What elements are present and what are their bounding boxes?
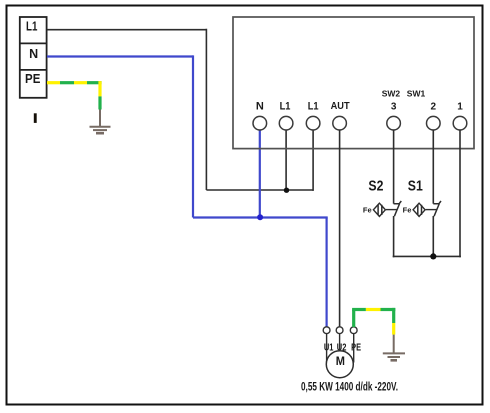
wire N vertical (blue) (192, 55, 194, 217)
wire to terminal L1-b (312, 130, 314, 191)
svg-text:N: N (256, 101, 264, 113)
wire terminal 3 to S2 (393, 130, 395, 204)
wire PE motor right vertical (green/yellow) (392, 308, 395, 335)
wire bottom horizontal (393, 255, 461, 257)
wire S2 to bottom (393, 216, 395, 257)
wire AUT to motor U2 (339, 130, 341, 327)
svg-text:SW1: SW1 (407, 89, 426, 99)
svg-text:PE: PE (25, 72, 40, 86)
svg-text:M: M (336, 354, 345, 368)
motor terminal U1 (323, 327, 330, 334)
ground E2 (383, 335, 405, 361)
wire PE motor vertical (green) (352, 310, 355, 328)
svg-text:0,55 KW 1400 d/dk -220V.: 0,55 KW 1400 d/dk -220V. (301, 382, 398, 394)
wire N to motor U1 (blue) (326, 218, 328, 327)
wire N horizontal from block (blue) (47, 55, 193, 57)
terminal L1-a (279, 101, 293, 130)
junction J1 (284, 188, 289, 193)
motor terminal U2 (336, 327, 343, 334)
terminal L1-b (306, 101, 320, 130)
svg-text:AUT: AUT (331, 101, 350, 112)
motor lead U1 (326, 333, 328, 362)
terminal N (253, 101, 267, 130)
switch S1 (403, 178, 441, 217)
motor lead PE (353, 333, 355, 362)
motor terminal PE (350, 327, 357, 334)
junction J3 (430, 253, 436, 259)
svg-text:Fe: Fe (363, 206, 372, 215)
svg-text:SW2: SW2 (382, 89, 401, 99)
wire L1 vertical (205, 29, 207, 190)
controller box (233, 17, 474, 149)
svg-text:1: 1 (457, 102, 463, 113)
svg-text:L1: L1 (280, 101, 291, 113)
svg-text:3: 3 (391, 102, 397, 113)
wire PE motor horizontal (green/yellow) (352, 308, 395, 311)
supply terminal block (20, 17, 47, 98)
svg-text:S2: S2 (368, 178, 383, 195)
wire L1 horizontal from block (47, 29, 206, 31)
svg-text:PE: PE (351, 341, 361, 353)
svg-text:L1: L1 (26, 19, 37, 33)
terminal 2 (427, 102, 441, 131)
svg-text:Fe: Fe (403, 206, 412, 215)
terminal AUT (331, 101, 350, 130)
wire PE horizontal (green/yellow) (47, 81, 102, 84)
wire PE vertical (yellow/green) (98, 81, 101, 109)
svg-text:L1: L1 (308, 101, 319, 113)
wire L1 lower horizontal (206, 189, 313, 191)
wire N lower horizontal (blue) (193, 216, 328, 218)
svg-text:S1: S1 (408, 178, 423, 195)
terminal 1 (453, 102, 467, 131)
svg-text:2: 2 (431, 102, 437, 113)
motor lead U2 (339, 333, 341, 351)
wire from terminal N down (blue) (259, 130, 261, 218)
label I (34, 113, 37, 123)
wire terminal 2 to S1 (432, 130, 434, 204)
motor M (326, 351, 353, 378)
svg-text:N: N (29, 47, 38, 61)
wire terminal 1 down (459, 130, 461, 258)
switch S2 (363, 178, 401, 217)
ground E1 (90, 110, 111, 134)
svg-text:U1: U1 (324, 341, 334, 353)
junction J2 (blue) (257, 214, 263, 220)
terminal 3 (387, 102, 401, 131)
wire to terminal L1-a (285, 130, 287, 191)
wire S1 to junction J3 (432, 216, 434, 256)
